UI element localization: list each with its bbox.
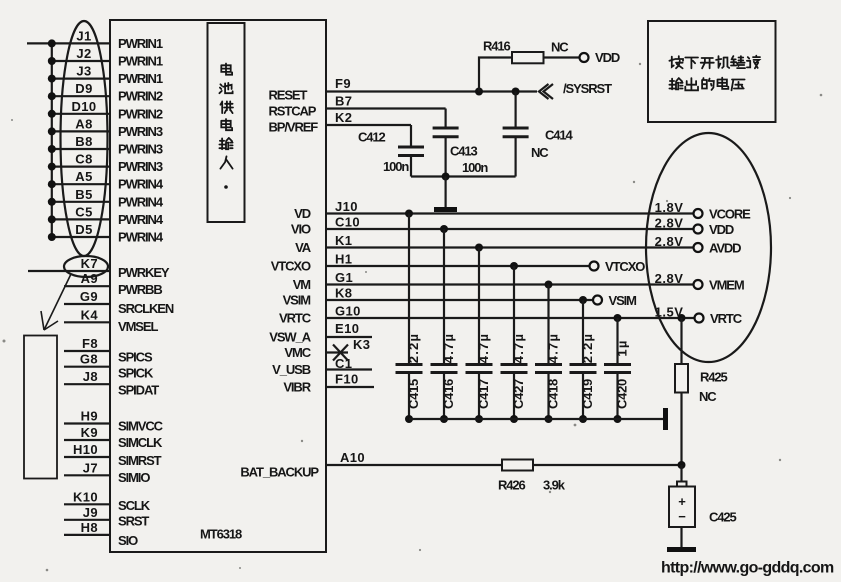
svg-text:H9: H9	[81, 409, 98, 424]
pin K8 (VSIM) supply wire	[283, 286, 593, 308]
svg-text:SIMRST: SIMRST	[118, 453, 162, 468]
left battery bus wire	[27, 43, 52, 237]
svg-text:VIO: VIO	[291, 222, 311, 237]
svg-text:2.8V: 2.8V	[655, 216, 684, 231]
svg-text:SPICK: SPICK	[118, 366, 154, 381]
svg-text:C8: C8	[75, 152, 92, 167]
svg-text:V_USB: V_USB	[272, 362, 311, 377]
pin G10 (VRTC) supply wire	[279, 304, 695, 326]
pin J8 (SPIDAT) wire	[64, 369, 159, 397]
svg-text:K8: K8	[335, 286, 352, 301]
svg-text:D10: D10	[71, 99, 96, 114]
pin C5 (PWRIN4) wire + junction	[48, 204, 164, 227]
ground (top)	[434, 177, 457, 210]
ground (decoupling rail end bar)	[663, 408, 668, 430]
svg-text:F9: F9	[335, 76, 351, 91]
pin J2 (PWRIN1) wire + junction	[48, 46, 163, 69]
capacitor C413 100n	[433, 109, 489, 177]
svg-text:BAT_BACKUP: BAT_BACKUP	[240, 465, 319, 480]
svg-text:C419: C419	[580, 379, 595, 409]
svg-text:4.7µ: 4.7µ	[546, 333, 561, 363]
svg-text:PWRIN3: PWRIN3	[118, 142, 163, 157]
capacitor C417 4.7µ	[466, 248, 493, 424]
svg-text:VMEM: VMEM	[709, 278, 744, 293]
pin K4 (VMSEL) wire	[64, 307, 158, 334]
svg-text:SRST: SRST	[118, 514, 149, 529]
svg-text:PWRIN1: PWRIN1	[118, 54, 163, 69]
svg-text:MT6318: MT6318	[200, 527, 242, 542]
svg-text:VRTC: VRTC	[279, 311, 312, 326]
svg-text:K10: K10	[73, 489, 98, 504]
svg-text:PWRKEY: PWRKEY	[118, 265, 170, 280]
output voltage ellipse	[646, 133, 771, 362]
pin C8 (PWRIN3) wire + junction	[48, 152, 163, 175]
svg-text:C418: C418	[546, 379, 561, 409]
svg-text:J2: J2	[76, 46, 91, 61]
svg-text:RESET: RESET	[269, 88, 308, 103]
pin K7 (PWRKEY) wire	[28, 256, 170, 280]
pin J7 (SIMIO) wire	[64, 460, 150, 485]
svg-text:PWRIN3: PWRIN3	[118, 159, 163, 174]
pin C1 (V_USB) stub	[272, 356, 372, 377]
svg-text:PWRIN4: PWRIN4	[118, 194, 164, 209]
svg-text:NC: NC	[551, 40, 569, 55]
pin D9 (PWRIN2) wire + junction	[48, 81, 163, 104]
svg-text:AVDD: AVDD	[709, 241, 741, 256]
svg-text:PWRIN4: PWRIN4	[118, 230, 164, 245]
svg-text:2.8V: 2.8V	[655, 234, 684, 249]
svg-text:1µ: 1µ	[615, 339, 630, 356]
pin F10 (VIBR) stub	[283, 372, 374, 395]
svg-text:D5: D5	[75, 222, 92, 237]
resistor R416 (NC)	[479, 39, 580, 92]
svg-text:B8: B8	[75, 134, 92, 149]
svg-text:VCORE: VCORE	[709, 207, 751, 222]
svg-text:VSIM: VSIM	[283, 293, 311, 308]
pin J1 (PWRIN1) wire + junction	[48, 28, 163, 51]
node: junction R425/A10/C425	[678, 461, 686, 469]
pin B8 (PWRIN3) wire + junction	[48, 134, 163, 157]
svg-text:SIMVCC: SIMVCC	[118, 419, 164, 434]
wire: decoupling ground rail	[409, 418, 663, 420]
svg-text:NC: NC	[699, 389, 717, 404]
pin H9 (SIMVCC) wire	[64, 409, 164, 434]
watermark URL	[661, 560, 834, 577]
svg-text:K1: K1	[335, 233, 352, 248]
svg-text:C5: C5	[75, 204, 92, 219]
svg-text:F10: F10	[335, 372, 359, 387]
capacitor C412 100n	[358, 125, 424, 177]
terminal VDD	[580, 50, 620, 65]
svg-text:4.7µ: 4.7µ	[476, 333, 491, 363]
terminal VSIM	[593, 293, 636, 308]
svg-text:VRTC: VRTC	[710, 311, 743, 326]
ground (battery)	[667, 547, 696, 552]
svg-text:H8: H8	[81, 520, 98, 535]
svg-text:E10: E10	[335, 321, 359, 336]
svg-text:G8: G8	[80, 352, 98, 367]
pin K1 (VA) supply wire	[295, 233, 693, 255]
svg-text:G9: G9	[80, 289, 98, 304]
terminal VMEM	[655, 271, 744, 293]
pin J9 (SRST) wire	[64, 505, 149, 529]
svg-text:SIO: SIO	[118, 533, 138, 548]
capacitor C420 1µ	[604, 318, 631, 423]
pin B7 (RSTCAP) wire	[269, 94, 446, 119]
svg-text:H1: H1	[335, 252, 352, 267]
svg-text:PWRIN3: PWRIN3	[118, 124, 163, 139]
capacitor C418 4.7µ	[535, 285, 562, 424]
svg-text:B5: B5	[75, 187, 92, 202]
svg-text:C427: C427	[511, 379, 526, 409]
terminal AVDD	[655, 234, 742, 256]
svg-text:R416: R416	[483, 39, 511, 54]
svg-text:D9: D9	[75, 81, 92, 96]
svg-text:C416: C416	[441, 379, 456, 409]
svg-text:SRCLKEN: SRCLKEN	[118, 301, 174, 316]
pin A8 (PWRIN3) wire + junction	[48, 116, 163, 139]
backup battery C425	[669, 465, 737, 548]
terminal VRTC	[655, 305, 743, 327]
svg-text:4.7µ: 4.7µ	[511, 333, 526, 363]
/SYSRST off-page chevron	[539, 81, 612, 99]
svg-text:K3: K3	[353, 337, 370, 352]
pin K3 (VMC) stub with no-connect X	[284, 337, 370, 361]
pin E10 (VSW_A) stub	[269, 321, 372, 345]
svg-text:F8: F8	[82, 336, 98, 351]
pin G9 (SRCLKEN) wire	[64, 289, 174, 316]
svg-text:VMSEL: VMSEL	[118, 319, 158, 334]
svg-text:SIMIO: SIMIO	[118, 470, 150, 485]
svg-text:RSTCAP: RSTCAP	[269, 104, 317, 119]
terminal VDD	[655, 216, 734, 238]
svg-text:4.7µ: 4.7µ	[441, 333, 456, 363]
svg-text:PWRIN2: PWRIN2	[118, 89, 163, 104]
IC U1 MT6318 body	[110, 20, 326, 552]
pin C10 (VIO) supply wire	[291, 215, 694, 237]
svg-text:C415: C415	[406, 379, 421, 409]
capacitor C415 2.2µ	[396, 214, 423, 424]
svg-text:J7: J7	[83, 460, 98, 475]
annotation box: voltage output when power key pressed	[648, 21, 776, 122]
svg-text:VSIM: VSIM	[609, 293, 637, 308]
connector ellipse around J1..D5	[61, 21, 108, 256]
svg-text:BP/VREF: BP/VREF	[269, 120, 319, 135]
svg-text:2.8V: 2.8V	[655, 271, 684, 286]
svg-text:VIBR: VIBR	[283, 380, 311, 395]
svg-text:A10: A10	[340, 450, 365, 465]
pin A5 (PWRIN4) wire + junction	[48, 169, 164, 192]
svg-text:A8: A8	[75, 116, 92, 131]
svg-text:J3: J3	[76, 64, 91, 79]
svg-text:PWRIN2: PWRIN2	[118, 106, 163, 121]
svg-text:SPIDAT: SPIDAT	[118, 383, 159, 398]
svg-text:C10: C10	[335, 215, 360, 230]
svg-text:VA: VA	[295, 240, 312, 255]
pin H1 (VTCXO) supply wire	[271, 252, 590, 274]
svg-text:R425: R425	[700, 370, 728, 385]
node: junction F9/R416	[475, 88, 483, 96]
pin F8 (SPICS) wire	[64, 336, 153, 364]
svg-text:http://www.go-gddq.com: http://www.go-gddq.com	[661, 560, 834, 577]
svg-text:K4: K4	[81, 307, 99, 322]
svg-text:2.2µ: 2.2µ	[580, 333, 595, 363]
svg-text:VMC: VMC	[284, 345, 311, 360]
pin D10 (PWRIN2) wire + junction	[48, 99, 163, 122]
pin H10 (SIMRST) wire	[64, 442, 162, 468]
resistor R425 (NC)	[675, 318, 728, 465]
svg-text:1.8V: 1.8V	[655, 200, 684, 215]
pin G1 (VM) supply wire	[293, 270, 694, 292]
svg-text:C1: C1	[335, 356, 352, 371]
pin B5 (PWRIN4) wire + junction	[48, 187, 164, 210]
capacitor C416 4.7µ	[431, 229, 458, 423]
empty annotation box	[24, 336, 57, 479]
svg-text:J9: J9	[83, 505, 98, 520]
pin J10 (VD) supply wire	[294, 199, 693, 221]
svg-text:VD: VD	[294, 206, 311, 221]
svg-text:NC: NC	[531, 145, 549, 160]
pin H8 (SIO) wire	[64, 520, 138, 548]
resistor R426 3.9k	[498, 460, 682, 493]
wire: capacitor common rail	[411, 173, 516, 181]
pin K10 (SCLK) wire	[64, 489, 151, 513]
svg-text:K9: K9	[81, 425, 98, 440]
svg-text:C420: C420	[615, 379, 630, 409]
svg-text:J8: J8	[83, 369, 98, 384]
svg-text:VM: VM	[293, 277, 311, 292]
svg-text:VTCXO: VTCXO	[271, 259, 311, 274]
svg-text:2.2µ: 2.2µ	[406, 333, 421, 363]
svg-text:A9: A9	[81, 271, 98, 286]
pin K9 (SIMCLK) wire	[64, 425, 163, 450]
svg-text:VTCXO: VTCXO	[605, 259, 645, 274]
node: junction F9/C414	[512, 88, 520, 96]
svg-text:/SYSRST: /SYSRST	[563, 81, 612, 96]
svg-text:B7: B7	[335, 94, 352, 109]
svg-text:PWRIN1: PWRIN1	[118, 71, 163, 86]
terminal VCORE	[655, 200, 752, 222]
svg-text:C417: C417	[476, 379, 491, 409]
svg-text:VDD: VDD	[595, 50, 620, 65]
ellipse around K7	[64, 256, 108, 277]
capacitor C427 4.7µ	[501, 266, 528, 423]
svg-text:R426: R426	[498, 478, 526, 493]
svg-text:K7: K7	[81, 256, 98, 271]
IC U1 inner box: battery supply input label	[208, 23, 245, 222]
svg-text:VSW_A: VSW_A	[269, 330, 311, 345]
capacitor C414 NC	[503, 92, 574, 177]
pin D5 (PWRIN4) wire + junction	[48, 222, 164, 245]
svg-text:PWRIN1: PWRIN1	[118, 36, 163, 51]
pin J3 (PWRIN1) wire + junction	[48, 64, 163, 87]
svg-text:J10: J10	[335, 199, 358, 214]
svg-text:SIMCLK: SIMCLK	[118, 435, 163, 450]
annotation arrow from K7 to empty box	[41, 274, 71, 330]
pin A9 (PWRBB) wire	[64, 271, 162, 297]
svg-text:H10: H10	[73, 442, 98, 457]
capacitor C419 2.2µ	[570, 300, 597, 423]
svg-text:3.9k: 3.9k	[543, 478, 566, 493]
svg-text:SCLK: SCLK	[118, 498, 151, 513]
svg-text:C425: C425	[709, 510, 737, 525]
svg-text:K2: K2	[335, 110, 352, 125]
terminal VTCXO	[590, 259, 646, 274]
svg-text:PWRIN4: PWRIN4	[118, 177, 164, 192]
svg-text:VDD: VDD	[709, 222, 734, 237]
svg-text:PWRBB: PWRBB	[118, 282, 162, 297]
svg-text:PWRIN4: PWRIN4	[118, 212, 164, 227]
pin F9 (RESET) wire to /SYSRST	[269, 76, 538, 103]
svg-text:C413: C413	[450, 144, 478, 159]
svg-text:C414: C414	[545, 128, 574, 143]
pin G8 (SPICK) wire	[64, 352, 154, 381]
svg-text:A5: A5	[75, 169, 92, 184]
svg-text:J1: J1	[76, 28, 91, 43]
pin A10 (BAT_BACKUP) wire	[240, 450, 502, 480]
svg-text:C412: C412	[358, 130, 386, 145]
pin K2 (BP/VREF) wire	[269, 110, 412, 135]
svg-text:SPICS: SPICS	[118, 349, 153, 364]
svg-text:G1: G1	[335, 270, 353, 285]
svg-text:100n: 100n	[383, 159, 409, 174]
svg-text:G10: G10	[335, 304, 361, 319]
svg-text:100n: 100n	[462, 160, 488, 175]
